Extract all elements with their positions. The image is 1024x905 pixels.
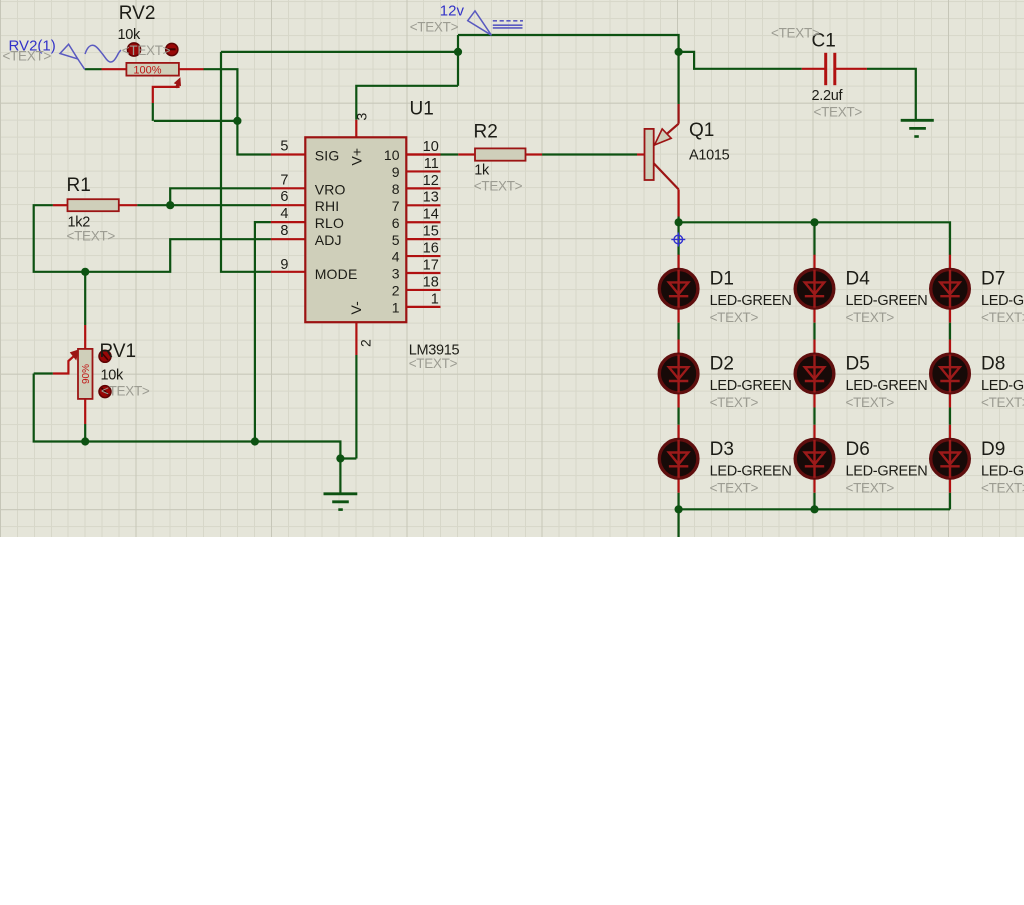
wire VRO branch [170, 188, 271, 205]
svg-text:6: 6 [280, 189, 288, 205]
label R1 value [68, 214, 91, 230]
junction [675, 48, 683, 56]
svg-text:2: 2 [358, 339, 374, 347]
pin D8 cathode [949, 393, 951, 408]
wire ground bus left [34, 374, 357, 459]
label D1 [710, 269, 734, 290]
label C1 text bottom [814, 105, 863, 120]
wire [813, 323, 815, 340]
pin number 15 [423, 224, 439, 240]
svg-text:3: 3 [392, 266, 400, 282]
led D9 [931, 440, 970, 479]
label Q1 part [689, 148, 730, 164]
pin 6 stub RHI [271, 204, 306, 206]
wire V- vertical [355, 355, 357, 459]
led D2 [659, 354, 698, 393]
label D3 [710, 439, 734, 460]
led D3 [659, 440, 698, 479]
pin Q1 base stub [637, 153, 645, 155]
label R2 value [474, 162, 490, 178]
svg-text:7: 7 [280, 172, 288, 188]
pin number 17 [423, 257, 439, 273]
label C1 text top [771, 26, 820, 41]
origin marker [671, 233, 685, 247]
pin number 2 [358, 339, 374, 347]
wire RV2 wiper green [152, 103, 154, 121]
RV2 value 100% [133, 64, 161, 76]
svg-text:3: 3 [354, 113, 370, 121]
label D2 type [710, 378, 792, 394]
svg-text:4: 4 [392, 249, 400, 265]
label R1 [67, 175, 91, 196]
svg-text:LED-GREEN: LED-GREEN [981, 293, 1024, 309]
pin D6 anode [813, 425, 815, 440]
indicator dot RV1 a [99, 350, 111, 362]
label D6 type [846, 463, 928, 479]
pin label 6 [392, 215, 400, 231]
wire [813, 493, 815, 510]
svg-text:16: 16 [423, 240, 439, 256]
junction [233, 117, 241, 125]
wire bottom stub [677, 509, 679, 537]
pin number 9 [280, 257, 288, 273]
wire Q1 collector diag [654, 163, 679, 189]
pin number 7 [280, 172, 288, 188]
svg-text:<TEXT>: <TEXT> [771, 26, 820, 41]
pin number 18 [423, 274, 439, 290]
wiper arrow RV2 [172, 76, 184, 90]
svg-text:A1015: A1015 [689, 148, 730, 164]
led D8 [931, 354, 970, 393]
svg-text:D2: D2 [710, 354, 734, 375]
pin number 4 [280, 206, 288, 222]
pin number 3 [354, 113, 370, 121]
potentiometer RV1 body [78, 349, 93, 399]
svg-text:D9: D9 [981, 439, 1005, 460]
wire RV1 bottom green [84, 424, 86, 442]
label D9 text [981, 480, 1024, 495]
label D3 text [710, 480, 759, 495]
pin D7 cathode [949, 308, 951, 323]
pin D9 cathode [949, 478, 951, 493]
pin D8 anode [949, 340, 951, 355]
pin stub 15 [406, 238, 440, 240]
pin D9 anode [949, 425, 951, 440]
svg-text:LED-GREEN: LED-GREEN [846, 293, 928, 309]
label RV1 text [101, 384, 150, 399]
svg-text:R1: R1 [67, 175, 91, 196]
label R1 text [67, 229, 116, 244]
pin 5 stub SIG [271, 153, 306, 155]
pin number 6 [280, 189, 288, 205]
junction [81, 437, 89, 445]
svg-text:8: 8 [392, 181, 400, 197]
wire [813, 408, 815, 425]
wire wiper junction [154, 120, 238, 122]
RV1 value 90% [81, 364, 92, 384]
pin label 3 [392, 266, 400, 282]
svg-text:<TEXT>: <TEXT> [410, 20, 459, 35]
pin D5 cathode [813, 393, 815, 408]
wire [949, 323, 951, 340]
indicator dot RV2 b [166, 43, 178, 55]
pin number 8 [280, 223, 288, 239]
indicator dot RV2 a [127, 43, 140, 56]
svg-text:2: 2 [392, 283, 400, 299]
svg-text:D7: D7 [981, 269, 1005, 290]
svg-text:R2: R2 [474, 122, 498, 143]
svg-text:<TEXT>: <TEXT> [67, 229, 116, 244]
wire RV2 wiper [153, 85, 179, 104]
potentiometer RV2 body [126, 63, 178, 76]
pin D1 cathode [677, 308, 679, 323]
svg-text:U1: U1 [410, 99, 434, 120]
pin stub 11 [406, 170, 440, 172]
svg-text:10: 10 [384, 147, 400, 163]
wire [949, 493, 951, 510]
svg-text:<TEXT>: <TEXT> [101, 384, 150, 399]
pin label V- [348, 301, 364, 315]
svg-text:Q1: Q1 [689, 120, 714, 141]
pin 9 stub MODE [271, 271, 306, 273]
pin number 16 [423, 240, 439, 256]
label D4 [846, 269, 871, 290]
led D5 [795, 354, 834, 393]
pin name RLO [315, 215, 344, 231]
wire LED column top [813, 222, 815, 255]
pin number 5 [280, 139, 288, 155]
pin RV1 top stub [84, 325, 86, 349]
wire [677, 493, 679, 510]
svg-text:ADJ: ADJ [315, 232, 342, 248]
label R2 text [474, 179, 523, 194]
wire R1 left loop [34, 205, 271, 272]
wire MODE net [221, 52, 271, 272]
wire probe lead [85, 68, 102, 70]
wire LED top bus [679, 222, 950, 255]
probe sine wave [85, 45, 121, 62]
label RV1 [100, 341, 137, 362]
svg-text:<TEXT>: <TEXT> [710, 480, 759, 495]
net label text [3, 49, 52, 64]
svg-text:1: 1 [431, 291, 439, 307]
resistor R2 body [475, 148, 526, 160]
wire 12v rail [458, 35, 679, 52]
pin D2 anode [677, 340, 679, 355]
wire rail to C1 [679, 52, 802, 69]
resistor R1 body [68, 199, 119, 211]
pin number 12 [423, 173, 439, 189]
label 12v text [410, 20, 459, 35]
svg-text:<TEXT>: <TEXT> [409, 356, 458, 371]
svg-text:D8: D8 [981, 354, 1005, 375]
wire Q1 emitter diag [654, 124, 679, 146]
pin label 2 [392, 283, 400, 299]
pin label 4 [392, 249, 400, 265]
wiper arrow RV1 [71, 350, 79, 359]
wire [949, 408, 951, 425]
svg-text:9: 9 [392, 164, 400, 180]
wire R2 to Q1 base [542, 153, 637, 155]
probe flag [60, 44, 85, 69]
led D4 [795, 269, 834, 308]
pin number 14 [423, 207, 439, 223]
svg-text:RHI: RHI [315, 198, 340, 214]
junction [336, 454, 344, 462]
pin stub 17 [406, 272, 440, 274]
label D8 type [981, 378, 1024, 394]
svg-text:D3: D3 [710, 439, 734, 460]
led D7 [931, 269, 970, 308]
svg-text:6: 6 [392, 215, 400, 231]
junction [675, 218, 683, 226]
svg-text:MODE: MODE [315, 266, 358, 282]
wire to U1 pin3 [356, 86, 458, 120]
svg-text:LED-GREEN: LED-GREEN [710, 293, 792, 309]
label D2 [710, 354, 734, 375]
svg-text:LED-GREEN: LED-GREEN [981, 463, 1024, 479]
pin R1 right stub [119, 204, 138, 206]
indicator dot RV1 b [99, 386, 111, 398]
pin label 5 [392, 232, 400, 248]
label D4 type [846, 293, 928, 309]
ground right [901, 120, 934, 136]
wire C1 to ground [867, 69, 916, 120]
pin D3 anode [677, 425, 679, 440]
svg-text:5: 5 [280, 139, 288, 155]
pin R2 left stub [458, 153, 475, 155]
label D8 text [981, 395, 1024, 410]
svg-text:12v: 12v [440, 3, 465, 20]
pin RV1 bottom stub [84, 399, 86, 424]
svg-text:<TEXT>: <TEXT> [981, 310, 1024, 325]
label D8 [981, 354, 1005, 375]
label Q1 [689, 120, 714, 141]
label RV2 [119, 3, 156, 24]
capacitor C1 plates [826, 53, 835, 85]
svg-text:LED-GREEN: LED-GREEN [846, 378, 928, 394]
svg-text:RV1: RV1 [100, 341, 137, 362]
svg-text:LED-GREEN: LED-GREEN [981, 378, 1024, 394]
label D9 type [981, 463, 1024, 479]
svg-text:LED-GREEN: LED-GREEN [846, 463, 928, 479]
svg-text:9: 9 [280, 257, 288, 273]
junction [454, 48, 462, 56]
pin stub 1 [406, 306, 440, 308]
svg-text:2.2uf: 2.2uf [812, 88, 844, 104]
svg-text:10k: 10k [101, 368, 125, 384]
wire emitter to rail [677, 52, 679, 104]
label D7 type [981, 293, 1024, 309]
svg-text:D6: D6 [846, 439, 870, 460]
pin label V+ [349, 148, 365, 166]
label D6 [846, 439, 870, 460]
label D1 text [710, 310, 759, 325]
label D5 text [846, 395, 895, 410]
svg-text:<TEXT>: <TEXT> [122, 43, 171, 58]
pin name MODE [315, 266, 358, 282]
label D7 [981, 269, 1005, 290]
svg-text:D4: D4 [846, 269, 871, 290]
svg-text:10: 10 [423, 139, 439, 155]
pin D6 cathode [813, 478, 815, 493]
svg-text:LED-GREEN: LED-GREEN [710, 463, 792, 479]
pin stub 18 [406, 289, 440, 291]
pin label 8 [392, 181, 400, 197]
label RV2 value [118, 27, 142, 43]
pin label 1 [392, 299, 400, 315]
pin R1 left stub [53, 204, 68, 206]
pin 7 stub VRO [271, 187, 306, 189]
wire RV1 top green [84, 272, 86, 325]
pin D2 cathode [677, 393, 679, 408]
junction [251, 437, 259, 445]
svg-text:<TEXT>: <TEXT> [846, 310, 895, 325]
label D1 type [710, 293, 792, 309]
svg-text:4: 4 [280, 206, 288, 222]
svg-text:100%: 100% [133, 64, 161, 76]
junction [81, 268, 89, 276]
junction [675, 505, 683, 513]
label U1 part [409, 343, 460, 359]
label R2 [474, 122, 498, 143]
led D6 [795, 440, 834, 479]
pin 3 stub U1 [355, 120, 357, 138]
led D1 [659, 269, 698, 308]
pin 10 stub U1 [406, 153, 440, 155]
pin 2 stub U1 [355, 322, 357, 355]
pin number 13 [423, 190, 439, 206]
pin D3 cathode [677, 478, 679, 493]
label D9 [981, 439, 1005, 460]
svg-text:<TEXT>: <TEXT> [814, 105, 863, 120]
label C1 [812, 31, 836, 52]
battery symbol [493, 21, 523, 28]
wire RLO net [255, 222, 271, 441]
wire RV2 right pin [179, 68, 204, 70]
svg-text:14: 14 [423, 207, 439, 223]
wire V+ horizontal [221, 51, 458, 53]
wire RV2 to SIG [204, 69, 271, 154]
svg-text:V-: V- [348, 301, 364, 315]
pin 8 stub ADJ [271, 238, 306, 240]
pin C1 left stub [802, 68, 825, 70]
svg-text:<TEXT>: <TEXT> [981, 395, 1024, 410]
svg-text:90%: 90% [81, 364, 92, 384]
wire LED bottom bus [679, 508, 950, 510]
svg-text:D1: D1 [710, 269, 734, 290]
svg-text:8: 8 [280, 223, 288, 239]
pin D5 anode [813, 340, 815, 355]
label D5 type [846, 378, 928, 394]
label D7 text [981, 310, 1024, 325]
svg-text:15: 15 [423, 224, 439, 240]
label D5 [846, 354, 870, 375]
svg-text:13: 13 [423, 190, 439, 206]
pin name ADJ [315, 232, 342, 248]
label D6 text [846, 480, 895, 495]
svg-text:1k: 1k [474, 162, 490, 178]
ic U1 body [305, 137, 406, 322]
ground left [324, 494, 358, 510]
svg-text:18: 18 [423, 274, 439, 290]
label C1 value [812, 88, 844, 104]
wire [677, 408, 679, 425]
emitter arrow Q1 [655, 129, 672, 145]
wire [677, 323, 679, 340]
wire RV2 left pin [102, 68, 127, 70]
wire pin10 to R2 [441, 153, 459, 155]
pin label 9 [392, 164, 400, 180]
svg-text:<TEXT>: <TEXT> [981, 480, 1024, 495]
pin R2 right stub [526, 153, 543, 155]
label D4 text [846, 310, 895, 325]
pin name VRO [315, 181, 346, 197]
svg-text:10k: 10k [118, 27, 142, 43]
svg-text:<TEXT>: <TEXT> [846, 395, 895, 410]
pin name SIG [315, 148, 340, 164]
wire Q1 collector down [677, 189, 679, 216]
pin stub 16 [406, 255, 440, 257]
svg-text:D5: D5 [846, 354, 870, 375]
svg-text:12: 12 [423, 173, 439, 189]
pin stub 13 [406, 204, 440, 206]
label U1 text [409, 356, 458, 371]
svg-text:17: 17 [423, 257, 439, 273]
svg-text:<TEXT>: <TEXT> [710, 310, 759, 325]
wire collector to bus [677, 217, 679, 223]
wire R1 to RHI [137, 204, 271, 206]
label 12v [440, 3, 465, 20]
pin C1 right stub [836, 68, 867, 70]
label RV2 text [122, 43, 171, 58]
pin stub 12 [406, 187, 440, 189]
pin label 7 [392, 198, 400, 214]
pin D7 anode [949, 255, 951, 270]
net label RV2(1) [9, 38, 56, 55]
pin name RHI [315, 198, 340, 214]
wire ground drop [339, 459, 341, 494]
label U1 [410, 99, 434, 120]
label RV1 value [101, 368, 125, 384]
svg-text:11: 11 [424, 156, 439, 172]
pin stub 14 [406, 221, 440, 223]
wire Q1 emitter up [677, 104, 679, 124]
svg-text:<TEXT>: <TEXT> [710, 395, 759, 410]
svg-text:RV2: RV2 [119, 3, 156, 24]
svg-text:LED-GREEN: LED-GREEN [710, 378, 792, 394]
svg-text:<TEXT>: <TEXT> [474, 179, 523, 194]
svg-text:5: 5 [392, 232, 400, 248]
svg-text:1: 1 [392, 299, 400, 315]
pin label 10 [384, 147, 400, 163]
svg-text:SIG: SIG [315, 148, 340, 164]
transistor Q1 bar [645, 129, 654, 180]
svg-text:<TEXT>: <TEXT> [846, 480, 895, 495]
pin D4 cathode [813, 308, 815, 323]
label D2 text [710, 395, 759, 410]
pin number 10 [423, 139, 439, 155]
wire LED column top [677, 222, 679, 255]
pin D4 anode [813, 255, 815, 270]
wire RV1 wiper green [34, 372, 53, 374]
pin number 11 [424, 156, 439, 172]
pin 4 stub RLO [271, 221, 306, 223]
junction [166, 201, 174, 209]
svg-text:<TEXT>: <TEXT> [3, 49, 52, 64]
junction [810, 505, 818, 513]
label D3 type [710, 463, 792, 479]
